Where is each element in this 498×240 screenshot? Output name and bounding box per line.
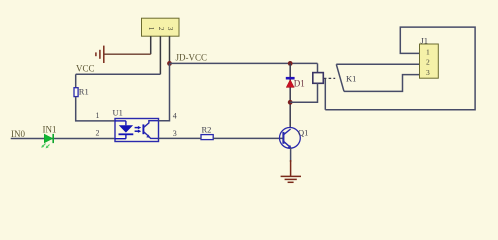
svg-text:K1: K1 [346,74,356,84]
P1 pin 3 lead [169,36,171,63]
relay K1 contact: lower throw line [344,75,420,92]
svg-text:Q1: Q1 [298,128,308,138]
svg-text:1: 1 [147,27,155,31]
wire VCC down to R1 [75,74,77,87]
svg-text:1: 1 [426,47,430,56]
wire loop J1 pin 1 around to K1 pole [325,27,475,110]
resistor R1 [74,88,78,97]
LED IN1 [41,134,53,149]
relay K1 armature [336,64,344,91]
power header P1 (3-pin block) [142,18,180,36]
svg-text:2: 2 [157,27,165,31]
U1 LED [115,120,126,122]
U1 coupling arrows [135,127,140,129]
P1 pin 2 lead [159,36,161,74]
junction dot at D1 anode [288,100,293,105]
ground symbol (rotated, at P1 pin 1) [96,46,104,63]
svg-text:3: 3 [173,129,177,138]
junction dot at D1 cathode [288,61,293,66]
mechanical dashed link to contacts [324,77,335,79]
relay coil K1 [313,73,324,84]
wire IN0 to U1 pin 2 [11,138,117,140]
diode D1 [286,78,295,87]
optocoupler U1 [115,119,159,142]
wire JD-VCC rail [170,62,318,64]
U1 phototransistor [142,124,144,134]
transistor Q1 [280,127,301,148]
wire coil top branch [317,63,319,72]
svg-text:2: 2 [426,58,430,67]
svg-text:R2: R2 [202,125,212,135]
wire P1 pin 3 down to U1 pin 4 [159,63,170,120]
svg-text:JD-VCC: JD-VCC [176,53,208,63]
svg-text:VCC: VCC [76,64,95,74]
P1 pin 1 lead [150,36,152,54]
wire D1 branch vertical [289,63,291,128]
ground symbol (bottom, at Q1 emitter) [281,160,301,182]
svg-text:IN0: IN0 [11,129,25,139]
svg-text:3: 3 [166,27,174,31]
wire ground to P1 pin 1 [104,53,151,55]
svg-text:J1: J1 [421,36,429,46]
wire coil bottom branch [290,83,317,102]
wire U1 pin 3 through R2 to Q1 base [159,137,283,139]
svg-text:U1: U1 [113,108,123,118]
connector J1 [420,44,439,78]
svg-text:IN1: IN1 [43,125,57,135]
resistor R2 [201,135,213,140]
svg-text:2: 2 [96,129,100,138]
wire VCC rail to P1 pin 2 [76,73,161,75]
svg-text:3: 3 [426,68,430,77]
junction dot JD-VCC at P1 pin 3 [167,61,172,66]
svg-text:4: 4 [173,112,177,121]
wire R1 to U1 pin 1 [76,97,115,121]
svg-text:D1: D1 [294,79,305,89]
relay K1 contact: common line [336,63,419,65]
wire Q1 emitter down [290,148,292,162]
svg-text:1: 1 [96,111,100,120]
wire K1 pole down to loop [324,79,326,110]
svg-text:R1: R1 [79,87,89,97]
